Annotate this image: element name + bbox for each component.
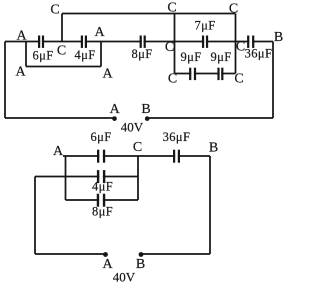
wire top-circuit terminal B to bottom right (147, 117, 273, 119)
wire top-circuit bottom left to terminal A (5, 117, 115, 119)
svg-text:A: A (53, 144, 64, 159)
svg-text:C: C (234, 72, 243, 87)
svg-text:B: B (209, 140, 218, 155)
svg-text:A: A (15, 65, 26, 80)
capacitor 6uF (top circuit) (38, 36, 44, 48)
svg-text:9μF: 9μF (210, 50, 231, 64)
svg-text:A: A (94, 25, 105, 40)
svg-text:8μF: 8μF (92, 205, 113, 219)
wire box2 bottom branch (175, 73, 236, 75)
svg-text:C: C (50, 3, 59, 18)
svg-text:A: A (110, 102, 121, 117)
capacitor 7uF (top circuit) (202, 36, 208, 48)
capacitor 4uF (top circuit) (81, 36, 87, 48)
wire top-circuit left side (4, 42, 6, 119)
svg-text:A: A (102, 67, 113, 82)
svg-text:A: A (102, 257, 113, 272)
wire bottom-circuit bottom row (66, 199, 139, 201)
svg-text:40V: 40V (121, 119, 144, 134)
wire bottom-circuit middle row with source tap (35, 176, 138, 178)
svg-text:C: C (167, 1, 176, 16)
capacitor 36uF (top circuit) (247, 36, 254, 48)
svg-text:B: B (141, 102, 150, 117)
svg-text:A: A (16, 29, 27, 44)
capacitor 6uF (bottom circuit) (97, 150, 105, 163)
wire node C riser (61, 14, 63, 42)
svg-text:C: C (57, 44, 66, 59)
wire bottom-circuit box left edge (65, 156, 67, 200)
wire bottom-circuit top row A to B corner (63, 155, 210, 157)
terminal dot B (bottom circuit) (139, 252, 144, 257)
capacitor 8uF (top circuit) (140, 36, 146, 48)
svg-text:4μF: 4μF (74, 48, 95, 62)
wire bottom-circuit left outer vertical (34, 177, 36, 255)
capacitor 9uF left (top circuit lower branch) (189, 68, 196, 80)
wire box1 left edge (node A) (25, 42, 27, 67)
wire box2 left edge (node C) joining top bypass (174, 14, 176, 74)
terminal dot B (top circuit) (145, 116, 150, 121)
capacitor 9uF right (top circuit lower branch) (217, 68, 223, 80)
svg-text:C: C (133, 140, 142, 155)
svg-text:36μF: 36μF (163, 130, 191, 144)
svg-text:B: B (136, 257, 145, 272)
svg-text:40V: 40V (113, 270, 136, 285)
capacitor 8uF (bottom circuit) (97, 194, 106, 207)
svg-text:9μF: 9μF (180, 50, 201, 64)
svg-text:C: C (229, 2, 238, 17)
svg-text:6μF: 6μF (90, 130, 111, 144)
wire top-circuit main bus A to B (5, 41, 273, 43)
wire node C top bypass (62, 13, 236, 15)
wire box2 right edge (node C) (235, 42, 237, 74)
svg-text:8μF: 8μF (131, 47, 152, 61)
svg-text:36μF: 36μF (245, 47, 273, 61)
wire node C drop at right (235, 14, 237, 42)
svg-text:4μF: 4μF (92, 179, 113, 193)
terminal dot A (bottom circuit) (103, 252, 108, 257)
wire box1 right edge (node A) (100, 42, 102, 67)
wire box1 bottom shorting A to A (26, 66, 101, 68)
wire bottom-circuit box right edge (node C) (137, 156, 139, 200)
capacitor 36uF (bottom circuit) (173, 150, 180, 163)
svg-text:C: C (168, 72, 177, 87)
svg-text:B: B (274, 30, 283, 45)
svg-text:7μF: 7μF (194, 19, 215, 33)
svg-text:C: C (165, 40, 174, 55)
wire bottom-circuit right outer vertical (209, 156, 211, 254)
wire bottom-circuit bottom left to terminal A (35, 253, 105, 255)
terminal dot A (top circuit) (112, 116, 117, 121)
capacitor 4uF (bottom circuit) (97, 170, 105, 183)
wire top-circuit right side (272, 42, 274, 119)
svg-text:6μF: 6μF (32, 49, 53, 63)
wire bottom-circuit terminal B to bottom right (142, 253, 211, 255)
